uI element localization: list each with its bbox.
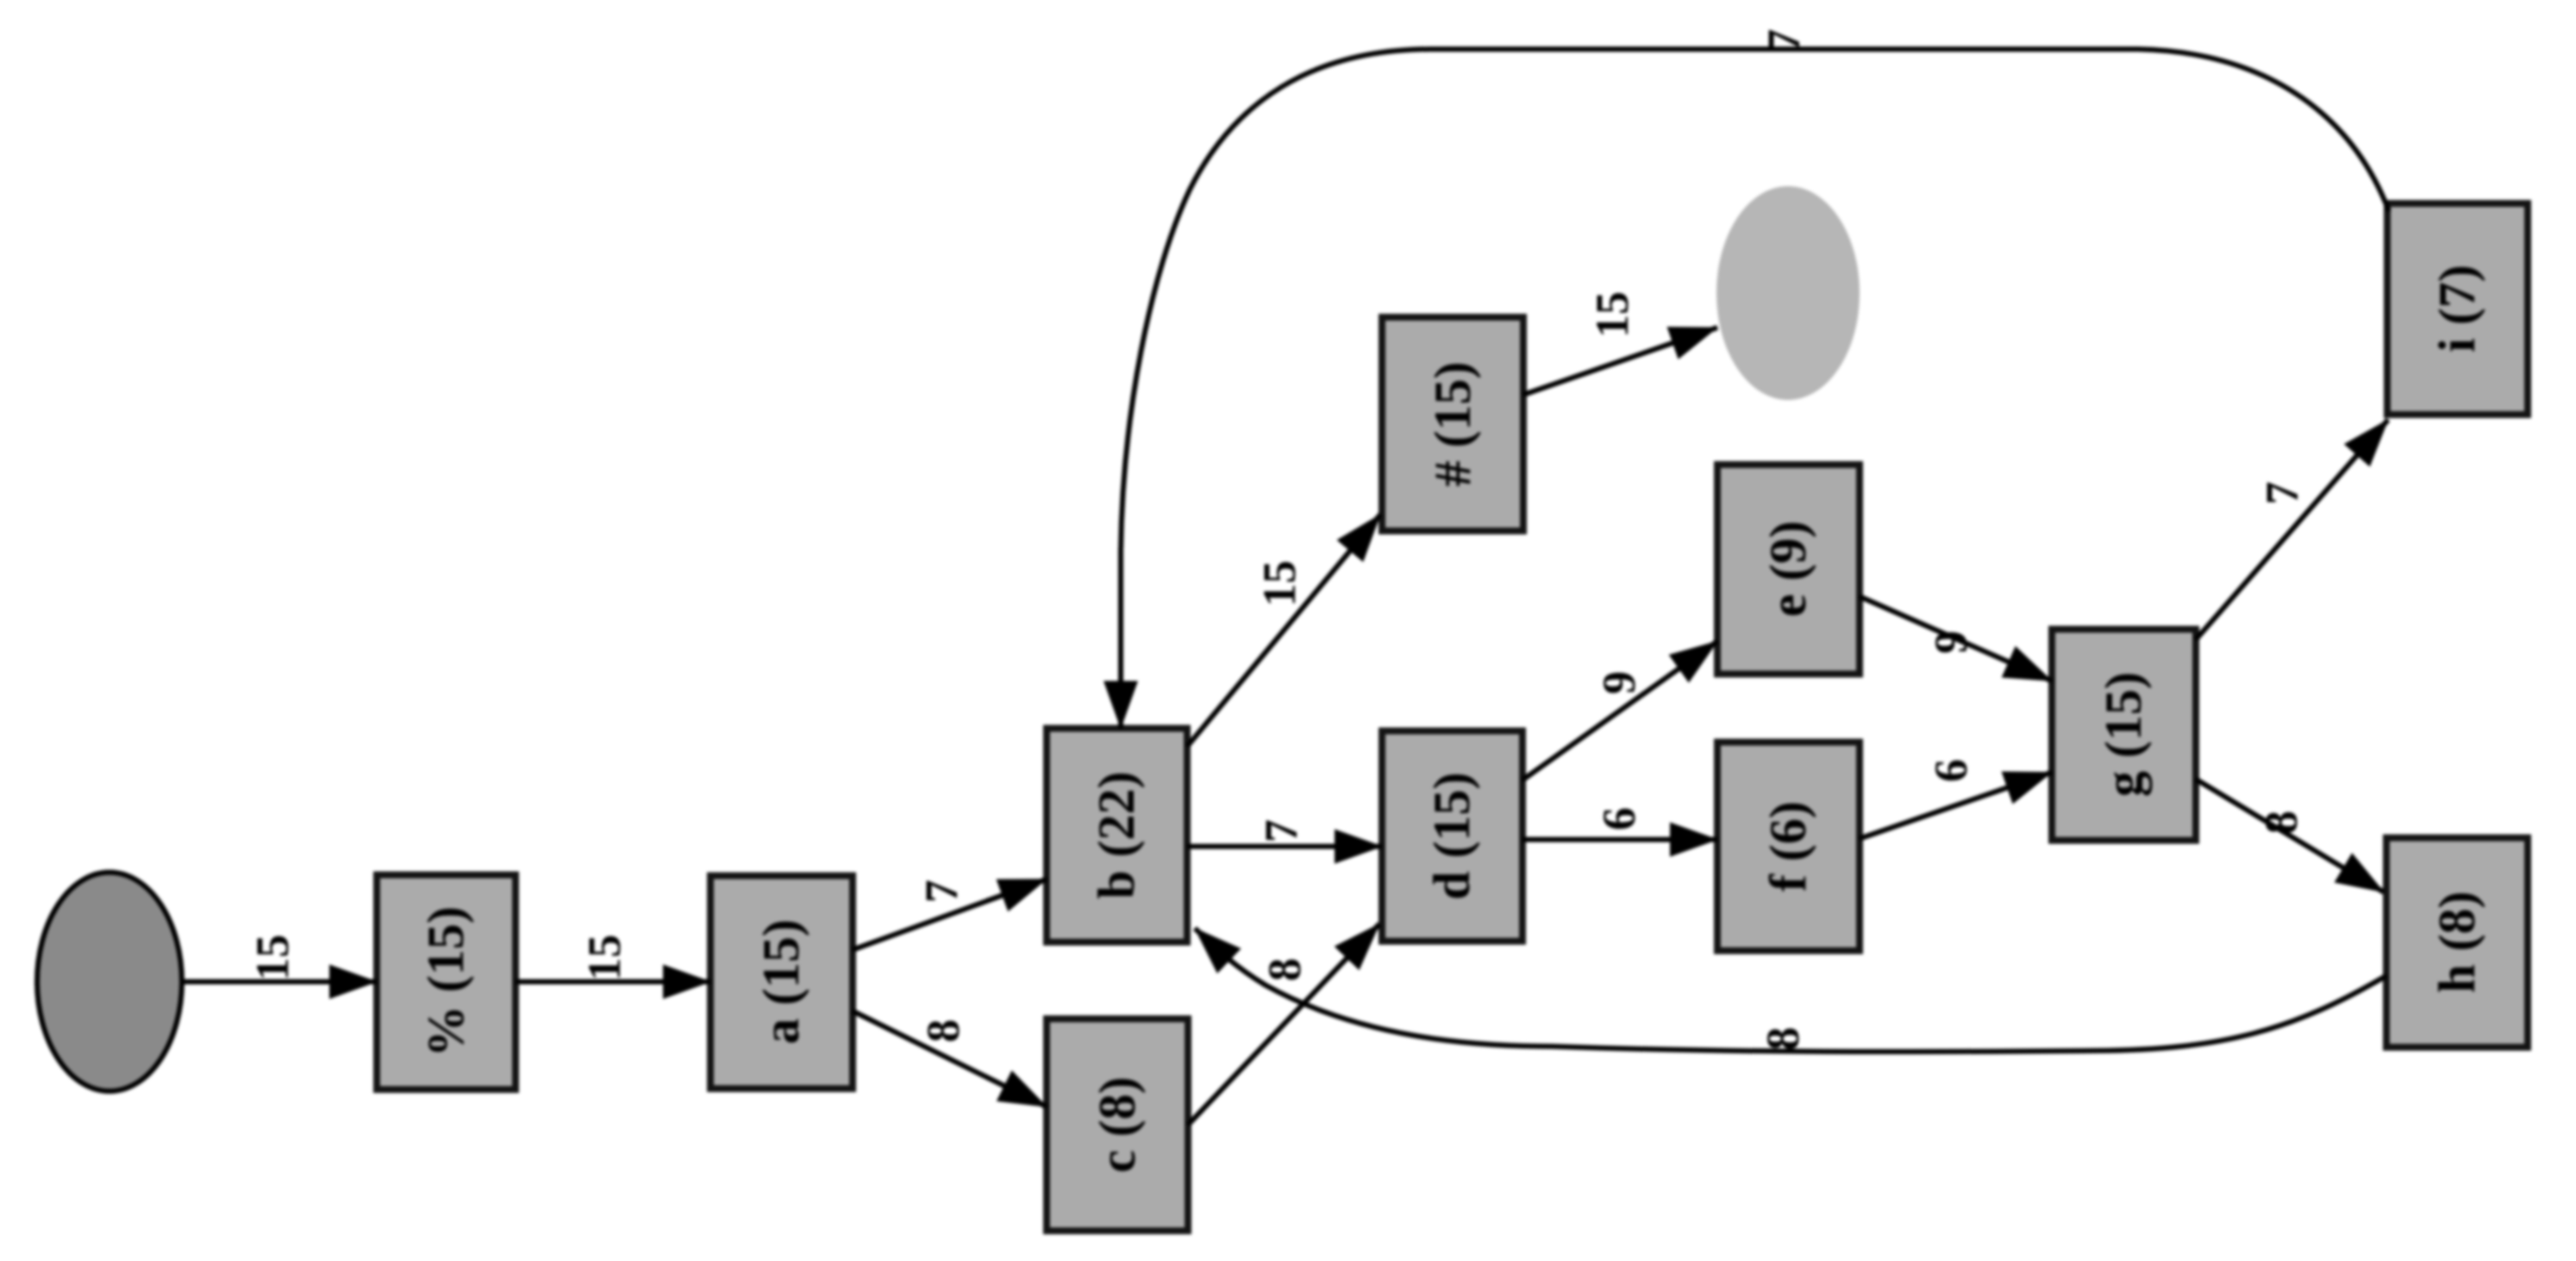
svg-text:8: 8 [1757,1027,1809,1051]
svg-text:15: 15 [247,934,298,981]
node % (15) [377,875,516,1089]
edge e->g [1860,596,2052,681]
svg-text:7: 7 [916,880,967,903]
end node (light ellipse) [1716,186,1860,400]
edge #->end [1523,328,1717,395]
node # (15) [1382,317,1523,531]
svg-text:8: 8 [2255,811,2307,834]
node h (8) [2386,838,2528,1047]
edge a->b [853,879,1047,950]
svg-text:9: 9 [1925,631,1977,654]
edge start->% [182,979,377,984]
svg-text:# (15): # (15) [1424,362,1481,487]
edge a->c [853,1011,1047,1107]
node g (15) [2052,629,2196,840]
edge i->b (long top curve) [1121,49,2389,728]
svg-text:15: 15 [1586,291,1638,338]
edge %->a [516,979,710,984]
svg-text:7: 7 [1758,29,1810,53]
svg-text:i (7): i (7) [2429,265,2485,353]
svg-text:15: 15 [1254,560,1305,607]
svg-text:h (8): h (8) [2429,891,2485,993]
edge b->d [1187,844,1382,849]
svg-text:f (6): f (6) [1760,802,1816,892]
node c (8) [1047,1019,1188,1231]
node i (7) [2387,203,2528,415]
svg-text:g (15): g (15) [2095,672,2152,797]
edge g->i [2196,420,2388,640]
node b (22) [1047,728,1187,942]
node f (6) [1717,742,1860,951]
node e (9) [1717,465,1860,674]
node d (15) [1382,731,1522,941]
edge c->d [1188,924,1379,1125]
svg-text:6: 6 [1593,808,1645,831]
svg-text:8: 8 [917,1020,969,1043]
edge d->f [1522,837,1717,842]
svg-text:7: 7 [2256,482,2308,505]
svg-text:% (15): % (15) [417,907,474,1058]
start node (dark ellipse) [37,872,182,1091]
edge g->h [2196,779,2384,892]
svg-text:9: 9 [1593,671,1645,695]
edge h->b (long bottom curve) [1195,928,2386,1052]
edge d->e [1522,641,1717,780]
svg-text:6: 6 [1925,759,1977,783]
svg-text:a (15): a (15) [753,920,810,1045]
svg-text:e (9): e (9) [1760,521,1816,617]
edge b-># [1187,515,1380,746]
node a (15) [710,876,853,1089]
svg-text:d (15): d (15) [1423,772,1480,900]
svg-text:c (8): c (8) [1089,1077,1146,1173]
svg-text:15: 15 [578,934,630,981]
svg-text:b (22): b (22) [1088,771,1145,899]
edge f->g [1860,772,2052,839]
svg-text:8: 8 [1259,958,1310,982]
svg-text:7: 7 [1255,820,1307,843]
